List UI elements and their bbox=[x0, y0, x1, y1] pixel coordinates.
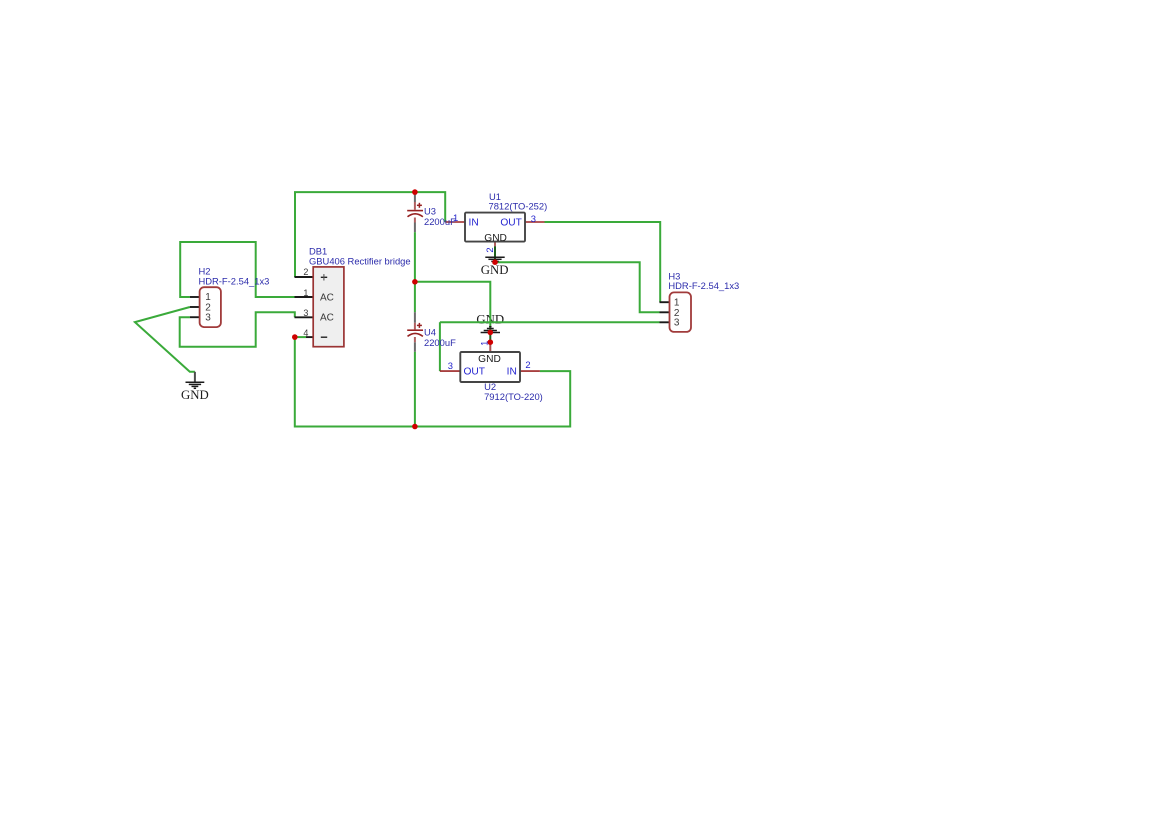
svg-text:1: 1 bbox=[303, 288, 308, 298]
svg-text:2: 2 bbox=[303, 267, 308, 277]
svg-text:2200uF: 2200uF bbox=[424, 337, 456, 348]
svg-text:3: 3 bbox=[448, 360, 453, 371]
svg-text:3: 3 bbox=[205, 313, 211, 324]
svg-text:2200uF: 2200uF bbox=[424, 216, 456, 227]
svg-text:GBU406 Rectifier bridge: GBU406 Rectifier bridge bbox=[309, 256, 411, 267]
svg-text:GND: GND bbox=[481, 263, 509, 277]
svg-text:3: 3 bbox=[531, 213, 536, 224]
svg-text:4: 4 bbox=[303, 328, 308, 338]
svg-text:3: 3 bbox=[674, 318, 680, 329]
svg-text:GND: GND bbox=[478, 354, 501, 365]
svg-text:HDR-F-2.54_1x3: HDR-F-2.54_1x3 bbox=[199, 276, 270, 287]
svg-text:7812(TO-252): 7812(TO-252) bbox=[489, 201, 548, 212]
svg-text:IN: IN bbox=[469, 218, 479, 229]
svg-text:2: 2 bbox=[525, 359, 530, 370]
svg-text:2: 2 bbox=[484, 247, 495, 252]
svg-text:AC: AC bbox=[320, 313, 334, 324]
svg-text:GND: GND bbox=[484, 233, 507, 244]
svg-text:3: 3 bbox=[303, 308, 308, 318]
svg-text:7912(TO-220): 7912(TO-220) bbox=[484, 391, 543, 402]
svg-text:1: 1 bbox=[205, 292, 211, 303]
svg-text:GND: GND bbox=[181, 388, 209, 402]
svg-text:AC: AC bbox=[320, 293, 334, 304]
svg-text:IN: IN bbox=[507, 367, 517, 378]
svg-text:U3: U3 bbox=[424, 206, 436, 217]
svg-text:1: 1 bbox=[478, 341, 489, 346]
svg-text:OUT: OUT bbox=[464, 367, 486, 378]
svg-text:OUT: OUT bbox=[500, 218, 522, 229]
svg-text:HDR-F-2.54_1x3: HDR-F-2.54_1x3 bbox=[668, 280, 739, 291]
